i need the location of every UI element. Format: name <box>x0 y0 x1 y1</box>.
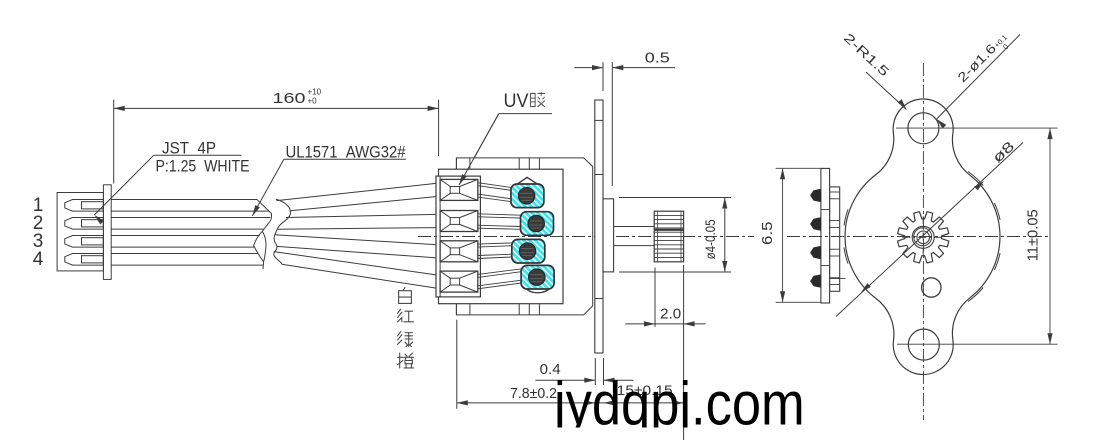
svg-text:160: 160 <box>273 90 306 107</box>
svg-text:7.8±0.2: 7.8±0.2 <box>510 386 557 402</box>
svg-text:4: 4 <box>33 249 44 270</box>
svg-text:P:1.25 WHITE: P:1.25 WHITE <box>156 158 250 176</box>
svg-text:0.5: 0.5 <box>645 49 670 66</box>
svg-text:+10: +10 <box>308 88 322 97</box>
svg-text:+0: +0 <box>308 97 318 106</box>
svg-text:UV: UV <box>504 91 529 112</box>
svg-text:jydqpj.com: jydqpj.com <box>552 370 804 438</box>
svg-text:2.0: 2.0 <box>660 306 681 323</box>
svg-text:6.5: 6.5 <box>759 221 776 245</box>
svg-text:11±0.05: 11±0.05 <box>1024 209 1041 261</box>
svg-text:JST 4P: JST 4P <box>162 139 216 157</box>
svg-text:ø4-0.05: ø4-0.05 <box>703 219 718 259</box>
